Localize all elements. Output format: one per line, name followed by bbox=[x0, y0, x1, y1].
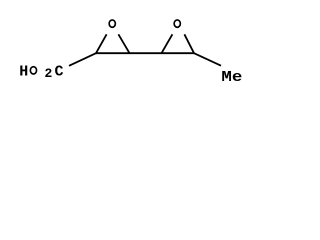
svg-text:Me: Me bbox=[221, 69, 242, 86]
atom label O1 (left epoxide oxygen) bbox=[109, 20, 115, 27]
chemical structure: 3-(3-methyloxiranyl)oxirane-2-carboxylic acid bbox=[0, 0, 271, 105]
svg-text:C: C bbox=[55, 64, 64, 81]
bond C4-O2 (right epoxide left side) bbox=[162, 34, 173, 53]
bond C(carboxyl)-C2 bbox=[69, 53, 96, 66]
svg-text:2: 2 bbox=[44, 66, 52, 81]
bond C3-O1 (left epoxide right side) bbox=[118, 34, 129, 53]
atom label O2 (right epoxide oxygen) bbox=[174, 20, 180, 27]
label HO2C: O bbox=[30, 67, 36, 74]
svg-text:H: H bbox=[19, 64, 28, 81]
wire base bond C2-C3-C4-C5 bbox=[96, 52, 194, 54]
bond C5-Me bbox=[194, 53, 221, 65]
bond C2-O1 (left epoxide left side) bbox=[96, 34, 107, 53]
bond C5-O2 (right epoxide right side) bbox=[184, 34, 194, 53]
